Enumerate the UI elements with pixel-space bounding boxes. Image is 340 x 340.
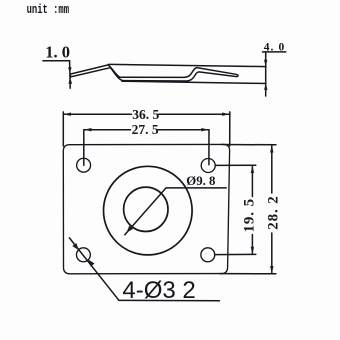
arrow 4.0 upper: [264, 60, 267, 67]
svg-text:36. 5: 36. 5: [132, 107, 159, 122]
svg-text:19. 5: 19. 5: [241, 198, 257, 233]
svg-text:1. 0: 1. 0: [45, 42, 70, 61]
arrow mounting leader lower: [88, 259, 95, 266]
arrow mounting leader upper: [72, 243, 79, 250]
arrow 36.5 left: [63, 113, 71, 116]
arrow 19.5 bottom: [251, 247, 254, 255]
dimension line 36.5 left segment: [63, 113, 131, 115]
extension line left for 27.5: [83, 130, 85, 165]
screw hole bottom-left: [76, 248, 90, 262]
screw hole top-right: [201, 159, 215, 173]
screw hole bottom-right: [201, 248, 215, 262]
extension line right for 27.5: [208, 130, 210, 165]
leader diagonal for jack hole diameter: [125, 188, 226, 235]
dimension line 19.5: [251, 165, 253, 196]
recess outer circle: [104, 166, 193, 255]
dimension line 28.2: [271, 145, 273, 193]
arrow 19.5 top: [251, 165, 254, 173]
arrow 1.0 lower: [69, 77, 73, 83]
extension line from bottom-right hole: [215, 253, 256, 255]
dimension line 4.0: [265, 52, 267, 96]
leader underline for mounting holes: [119, 299, 220, 301]
dimension line 27.5 left segment: [84, 129, 131, 131]
leader shelf for 1.0: [43, 60, 70, 62]
screw hole top-left: [77, 158, 91, 172]
leader diagonal for mounting holes: [69, 238, 118, 300]
bottom level extension line (side view): [122, 81, 266, 83]
arrow 27.5 right: [201, 128, 209, 131]
arrow 4.0 lower: [264, 83, 267, 90]
leader shelf for 4.0: [263, 51, 286, 53]
arrow 28.2 bottom: [270, 266, 273, 274]
arrow 27.5 left: [84, 128, 92, 131]
svg-text:unit :mm: unit :mm: [27, 4, 70, 18]
extension line from top-right hole: [215, 164, 256, 166]
extension line left for 36.5: [62, 112, 64, 146]
dimension line 36.5 right segment: [159, 113, 230, 115]
arrow 28.2 top: [270, 145, 273, 153]
plate profile outline (side view): [70, 65, 238, 81]
top level extension line (side view): [109, 64, 267, 66]
arrow 36.5 right: [222, 113, 230, 116]
svg-text:Ø9. 8: Ø9. 8: [186, 174, 215, 188]
leader vertical for 1.0: [69, 61, 72, 88]
extension line top for 28.2: [222, 144, 276, 146]
svg-text:28. 2: 28. 2: [266, 195, 282, 230]
arrow jack hole leader: [126, 226, 133, 233]
plate outline rounded rectangle (front view): [63, 144, 229, 273]
svg-text:4-Ø3 2: 4-Ø3 2: [122, 277, 195, 304]
extension line bottom for 28.2: [220, 273, 276, 275]
svg-text:27. 5: 27. 5: [132, 122, 159, 137]
arrow 1.0 upper: [68, 67, 71, 73]
jack hole inner circle: [124, 187, 168, 231]
dimension line 27.5 right segment: [158, 129, 209, 131]
extension line right for 36.5: [229, 112, 231, 146]
